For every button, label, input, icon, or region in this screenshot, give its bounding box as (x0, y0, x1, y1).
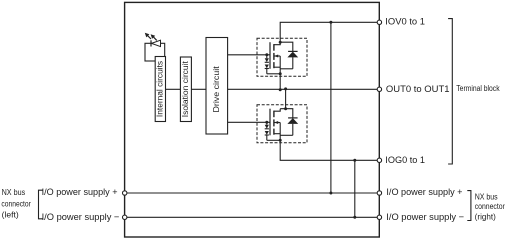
svg-text:Internal circuits: Internal circuits (155, 61, 165, 117)
terminal OUT0 (377, 87, 381, 91)
junction: IOG bus on IOG line (353, 159, 356, 162)
wire: IOV bus down to I/O power supply + (330, 22, 332, 193)
svg-text:connector: connector (1, 199, 31, 208)
label NX bus connector (right) (475, 192, 506, 221)
label NX bus connector (left) (1, 188, 31, 220)
LED indicator circuit loop (145, 43, 165, 61)
junction: Q1 source on OUT line (279, 88, 282, 91)
terminal IOG0 (377, 158, 381, 162)
svg-text:Drive circuit: Drive circuit (211, 66, 221, 113)
output block Q2 (lower, dashed) (257, 105, 307, 143)
svg-text:NX bus: NX bus (475, 192, 498, 201)
wire: Q2 source to IOG0 line (280, 140, 379, 160)
junction: Q2 drain on OUT line (284, 87, 287, 90)
isolation circuit block (180, 57, 191, 122)
body diode D3 of Q2 (280, 118, 298, 135)
svg-text:(right): (right) (475, 212, 497, 221)
NX bus connector (left) bracket (39, 190, 43, 219)
gate protection zeners of Q1 (265, 55, 281, 74)
svg-text:Isolation circuit: Isolation circuit (180, 60, 190, 117)
terminal block bracket (448, 19, 452, 164)
wire: signal line internal-isolation-drive-OUT0 node (165, 88, 379, 90)
body diode D2 of Q1 (280, 51, 298, 68)
svg-text:I/O power supply +: I/O power supply + (386, 187, 462, 197)
terminal IOV0 (377, 20, 381, 24)
svg-text:IOV0 to 1: IOV0 to 1 (385, 17, 425, 27)
Q1 drain rail (280, 42, 293, 51)
svg-text:Terminal block: Terminal block (456, 84, 499, 93)
junction: IOV bus on power + rail (329, 192, 332, 195)
transistor Q1 (MOSFET) (270, 42, 280, 74)
drive circuit block (206, 38, 228, 135)
wire: IOG bus down to I/O power supply - (354, 160, 356, 217)
junction: IOV bus on IOV line (329, 21, 332, 24)
transistor Q2 (MOSFET) (270, 109, 280, 141)
terminal I/O power + right (377, 191, 381, 195)
gate protection zeners of Q2 (265, 122, 281, 140)
terminal I/O power - left (123, 215, 127, 219)
wire: Q1 source to OUT line (279, 74, 281, 90)
svg-text:NX bus: NX bus (2, 188, 26, 197)
svg-text:I/O power supply −: I/O power supply − (42, 212, 120, 222)
wire: drive circuit to Q1 gate (228, 54, 270, 56)
internal circuits block (155, 57, 166, 122)
svg-text:IOG0 to 1: IOG0 to 1 (385, 155, 425, 165)
wire: IOV0 line from Q1 drain to IOV terminal (280, 22, 379, 42)
junction dots Q1 (265, 41, 281, 76)
output block Q1 (upper, dashed) (257, 38, 307, 76)
svg-text:OUT0 to OUT1: OUT0 to OUT1 (386, 84, 450, 94)
svg-text:(left): (left) (2, 211, 20, 220)
terminal I/O power + left (123, 191, 127, 195)
wire: drive circuit to Q2 gate (228, 121, 270, 123)
LED light emission arrows (145, 33, 157, 41)
svg-text:I/O power supply −: I/O power supply − (386, 212, 464, 222)
svg-text:connector: connector (475, 202, 506, 211)
junction: IOG bus on power - rail (353, 216, 356, 219)
wire: I/O power supply - rail (125, 216, 380, 218)
Q2 drain rail (280, 109, 293, 118)
svg-text:I/O power supply +: I/O power supply + (42, 187, 118, 197)
NX bus connector (right) bracket (467, 191, 471, 221)
wire: I/O power supply + rail (125, 192, 380, 194)
unit enclosure box (125, 2, 380, 237)
LED D1 (151, 40, 161, 46)
terminal I/O power - right (377, 215, 381, 219)
wire: OUT line to Q2 drain (285, 89, 287, 108)
junction dots Q2 (265, 107, 287, 142)
